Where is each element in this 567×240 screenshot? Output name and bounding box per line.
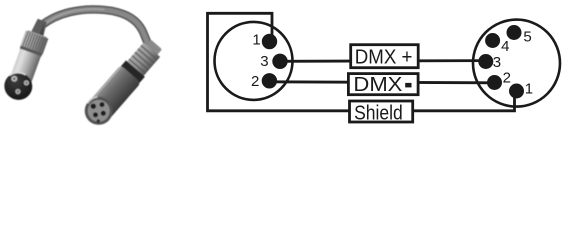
svg-text:3: 3 (493, 54, 501, 71)
svg-text:4: 4 (501, 38, 509, 55)
svg-text:Shield: Shield (354, 102, 403, 124)
svg-text:2: 2 (503, 69, 511, 86)
svg-text:DMX +: DMX + (355, 47, 413, 69)
svg-text:3: 3 (260, 53, 268, 70)
svg-text:DMX: DMX (353, 74, 402, 96)
svg-text:1: 1 (525, 81, 533, 98)
svg-text:2: 2 (251, 73, 259, 90)
svg-text:1: 1 (252, 32, 260, 49)
svg-text:5: 5 (523, 29, 531, 46)
